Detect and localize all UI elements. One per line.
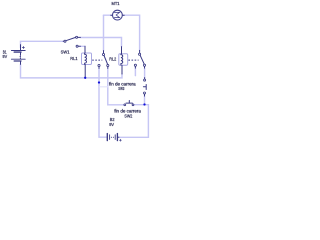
svg-text:9V: 9V <box>3 54 8 59</box>
svg-text:SW2: SW2 <box>124 113 132 118</box>
svg-text:SW1: SW1 <box>61 49 70 54</box>
svg-text:RL2: RL2 <box>109 57 116 62</box>
svg-text:SW3: SW3 <box>118 86 125 91</box>
svg-text:RL1: RL1 <box>70 56 78 61</box>
svg-text:9V: 9V <box>109 122 114 127</box>
svg-text:MT1: MT1 <box>112 1 120 6</box>
